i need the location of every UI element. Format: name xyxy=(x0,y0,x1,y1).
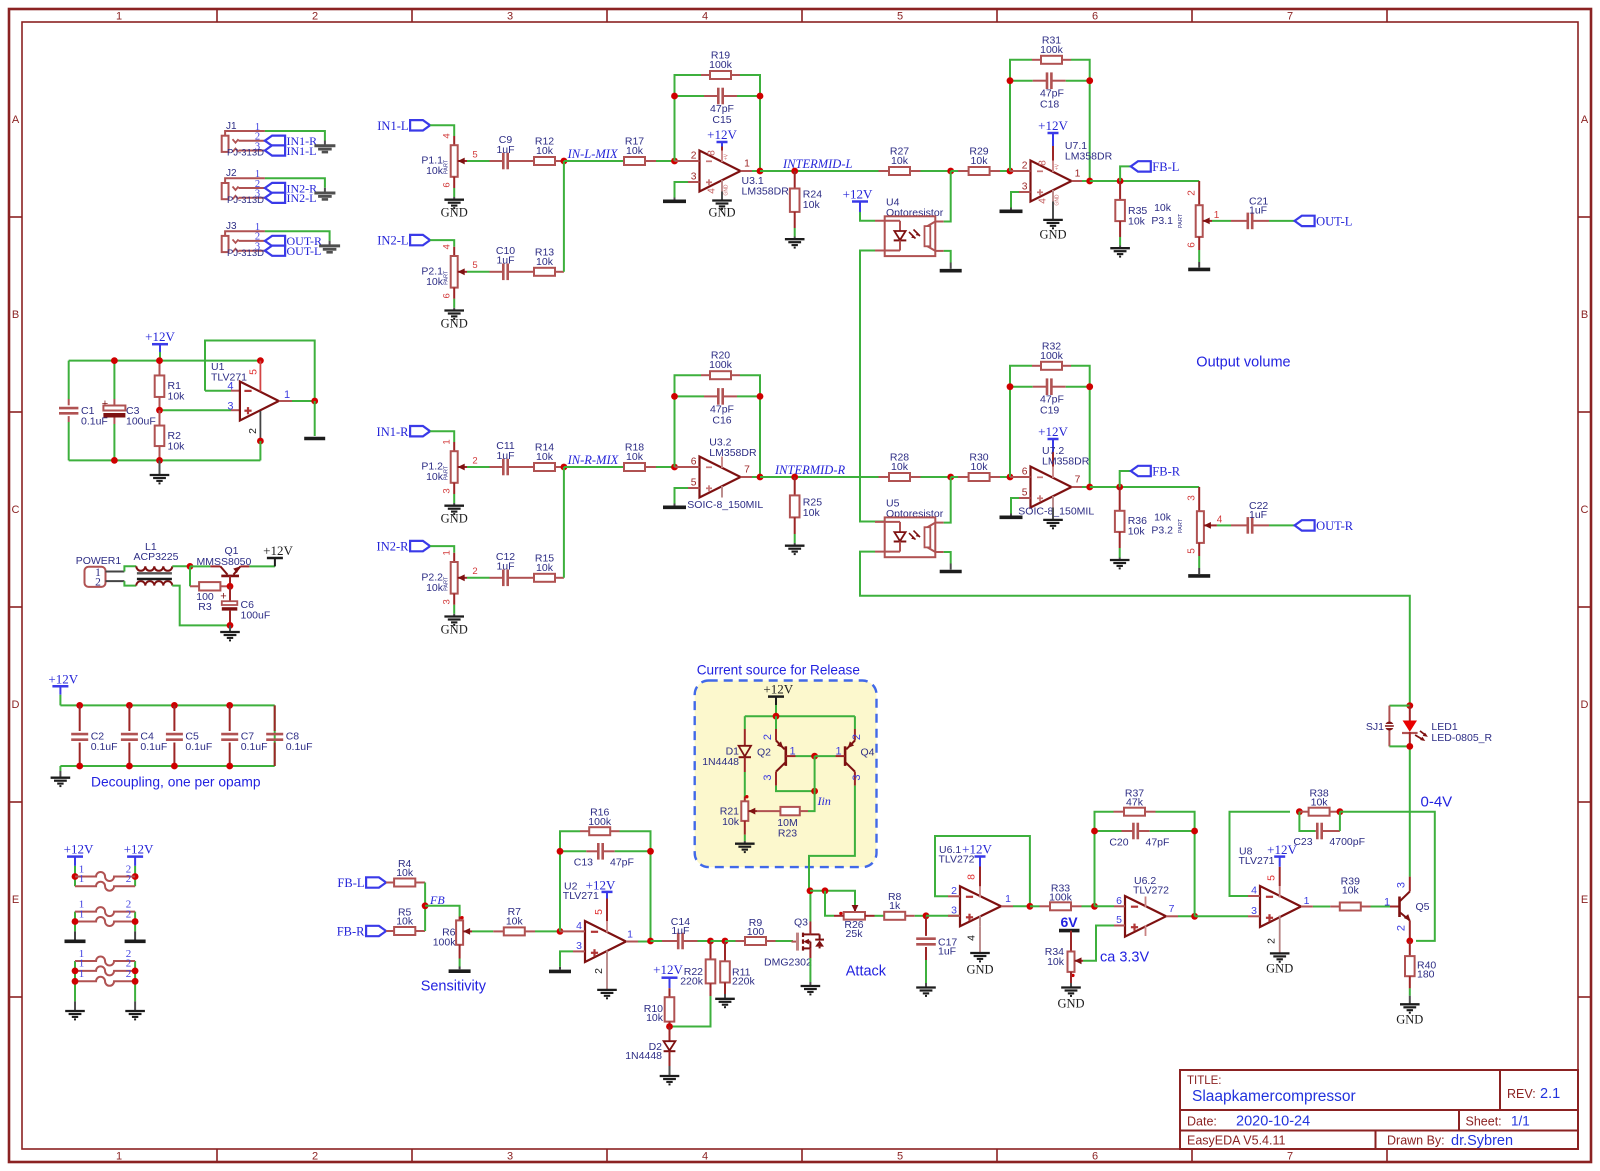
U6.2 output lead xyxy=(1166,903,1178,916)
op-amp U6.2 xyxy=(1125,875,1169,937)
svg-text:0.1uF: 0.1uF xyxy=(140,741,167,753)
wire feedback right rail U7.2 xyxy=(1071,366,1090,487)
junction xyxy=(132,918,139,925)
wire D1 to R21 xyxy=(744,772,746,797)
jumper link 1a xyxy=(75,872,135,881)
op-amp U7.1 xyxy=(1031,140,1113,205)
svg-text:10k: 10k xyxy=(168,391,186,403)
capacitor C16 xyxy=(704,388,737,426)
svg-text:1: 1 xyxy=(744,159,750,170)
jumper link 1b xyxy=(75,882,135,891)
wire jumper2 right stem xyxy=(134,912,136,932)
svg-text:1N4448: 1N4448 xyxy=(702,756,739,768)
svg-text:3: 3 xyxy=(1187,495,1198,501)
wire R18 to U3.2 pin6 xyxy=(656,466,675,468)
wire J3 pin1 to ground xyxy=(265,231,330,241)
junction xyxy=(647,938,654,945)
U7.2 pin5 lead xyxy=(1019,497,1031,499)
svg-text:25k: 25k xyxy=(846,928,864,940)
wire C22 to OUT-R xyxy=(1269,524,1295,526)
junction xyxy=(671,464,678,471)
wire R33 to node xyxy=(1082,905,1095,907)
junction xyxy=(1091,828,1098,835)
svg-text:+12V: +12V xyxy=(145,329,175,344)
svg-text:2: 2 xyxy=(691,151,697,162)
op-amp U7.2 xyxy=(1018,445,1094,517)
potentiometer R26 xyxy=(834,905,875,940)
svg-text:1uF: 1uF xyxy=(671,925,689,937)
junction xyxy=(671,93,678,100)
U2 pin4 lead xyxy=(560,930,585,932)
svg-text:10k: 10k xyxy=(803,507,821,519)
wire node to R29 xyxy=(951,170,958,172)
ground bar (P3.2) xyxy=(1188,574,1210,578)
svg-text:+V: +V xyxy=(724,153,730,160)
svg-text:DMG2302: DMG2302 xyxy=(764,956,812,968)
U8 pin2 stub xyxy=(1265,927,1279,953)
U1 pin4 lead xyxy=(231,390,240,392)
wire R17 to U3.1 pin2 xyxy=(656,160,675,162)
wire decoupling right end xyxy=(274,705,276,766)
svg-text:Output volume: Output volume xyxy=(1196,355,1290,371)
svg-text:1uF: 1uF xyxy=(1249,509,1267,521)
U6.1 output lead xyxy=(1001,893,1013,906)
svg-text:1: 1 xyxy=(1214,210,1220,221)
junction xyxy=(422,902,429,909)
wire output to ground bar xyxy=(314,401,316,436)
op-amp U6.1 xyxy=(939,844,1002,926)
wire J1 pin1 to ground xyxy=(265,131,325,141)
junction xyxy=(132,873,139,880)
svg-text:LM358DR: LM358DR xyxy=(742,186,790,198)
svg-text:3: 3 xyxy=(576,940,582,952)
resistor R17 xyxy=(624,136,656,166)
svg-text:+12V: +12V xyxy=(843,187,873,202)
wire to C14 xyxy=(651,940,663,942)
wire Q3 source to ground xyxy=(809,958,811,982)
ground stem U1 rail xyxy=(159,460,161,474)
junction xyxy=(226,763,233,770)
resistor R31 xyxy=(1032,34,1071,64)
U3.2 pin6 lead xyxy=(675,466,700,468)
wire SJ1 top xyxy=(1389,705,1409,707)
svg-text:3: 3 xyxy=(507,11,513,23)
junction xyxy=(822,887,829,894)
svg-text:Q5: Q5 xyxy=(1416,901,1430,913)
wire R13 to IN-L-MIX xyxy=(563,161,565,272)
wire feedback right rail U7.1 xyxy=(1071,60,1090,181)
svg-text:10k: 10k xyxy=(426,471,444,483)
junction xyxy=(1086,77,1093,84)
U6.2 pin5 lead xyxy=(1114,925,1125,927)
svg-text:2: 2 xyxy=(851,734,863,740)
ground (R36) xyxy=(1110,560,1130,568)
junction xyxy=(76,702,83,709)
ground J2 xyxy=(314,193,335,199)
svg-text:E: E xyxy=(12,894,19,906)
wire U1 pin2 to rail xyxy=(259,441,261,460)
wire C13 right xyxy=(615,850,651,852)
junction xyxy=(126,763,133,770)
svg-text:3: 3 xyxy=(1022,182,1028,193)
svg-text:4: 4 xyxy=(966,935,978,941)
svg-text:8: 8 xyxy=(966,874,978,880)
svg-text:1: 1 xyxy=(627,928,633,940)
ground (decoupling) xyxy=(51,778,71,786)
junction xyxy=(1086,178,1093,185)
wire U2 pin3 to ground bar xyxy=(560,951,573,966)
wire U3.2 pin5 to ground bar xyxy=(675,488,689,504)
svg-text:47pF: 47pF xyxy=(1146,836,1170,848)
svg-text:5: 5 xyxy=(1022,488,1028,499)
U8 pin4 lead xyxy=(1248,895,1260,897)
svg-text:2: 2 xyxy=(126,873,132,885)
svg-text:4: 4 xyxy=(1251,885,1257,897)
resistor R37 xyxy=(1114,788,1156,816)
wire R9 to Q3 gate xyxy=(776,940,794,942)
svg-text:REV:: REV: xyxy=(1507,1087,1536,1101)
wire R1/R2 tap to U1 pin3 xyxy=(160,409,232,411)
ground (U7.1) xyxy=(1043,220,1063,228)
wire +12V to rail xyxy=(159,352,161,361)
svg-text:1k: 1k xyxy=(889,900,901,912)
junction xyxy=(187,563,194,570)
svg-text:Sensitivity: Sensitivity xyxy=(421,979,487,995)
ground (P1.1) xyxy=(444,200,464,208)
wire +12V to U4 xyxy=(860,212,875,221)
svg-text:0.1uF: 0.1uF xyxy=(185,741,212,753)
svg-text:10k: 10k xyxy=(971,461,989,473)
wire R40 to ground xyxy=(1409,988,1411,995)
svg-text:0.1uF: 0.1uF xyxy=(241,741,268,753)
svg-text:10k: 10k xyxy=(426,582,444,594)
potentiometer P3.1 xyxy=(1151,181,1219,250)
svg-text:GND: GND xyxy=(1039,227,1066,241)
ground (U1 rail) xyxy=(150,475,170,483)
ground J3 xyxy=(319,246,340,252)
junction xyxy=(226,702,233,709)
wire jumper1 right xyxy=(134,866,136,886)
junction xyxy=(1191,913,1198,920)
U1 pin3 lead xyxy=(231,409,240,411)
wire Q5 collector to LED1 xyxy=(1409,746,1411,876)
net flag IN2-L xyxy=(265,191,317,205)
svg-text:10k: 10k xyxy=(1311,797,1329,809)
wire U6.1 out xyxy=(1013,905,1030,907)
ground bar (U4) xyxy=(940,269,962,273)
wire current source top rail xyxy=(745,715,855,717)
svg-text:LM358DR: LM358DR xyxy=(1042,456,1090,468)
svg-text:GND: GND xyxy=(441,622,468,636)
svg-text:+12V: +12V xyxy=(962,842,992,857)
svg-text:GND: GND xyxy=(441,512,468,526)
wire U4 top-right to INTERMID-L node xyxy=(944,171,951,222)
jumper link 2b xyxy=(75,917,135,926)
svg-text:3: 3 xyxy=(507,1151,513,1163)
wire node to U6.2 pin6 xyxy=(1095,905,1115,907)
wire P1.2 to ground xyxy=(453,494,455,503)
svg-text:+12V: +12V xyxy=(653,962,683,977)
svg-text:Decoupling, one per opamp: Decoupling, one per opamp xyxy=(91,775,261,790)
wire C20 right xyxy=(1150,830,1195,832)
wire C1 top xyxy=(68,361,70,399)
transistor Q1 xyxy=(197,545,252,586)
svg-text:3: 3 xyxy=(851,774,863,780)
ground (U8) xyxy=(1270,953,1290,961)
capacitor C20 xyxy=(1109,823,1169,849)
junction xyxy=(72,918,79,925)
wire feedback right rail U3.1 xyxy=(740,75,760,171)
svg-text:100k: 100k xyxy=(1049,892,1073,904)
svg-text:10k: 10k xyxy=(396,867,414,879)
svg-text:10k: 10k xyxy=(803,199,821,211)
junction xyxy=(707,938,714,945)
potentiometer P3.2 xyxy=(1151,487,1222,556)
capacitor C12 xyxy=(490,551,522,586)
svg-text:3: 3 xyxy=(762,774,774,780)
svg-text:5: 5 xyxy=(897,1151,903,1163)
svg-text:6: 6 xyxy=(1022,467,1028,478)
svg-text:TLV271: TLV271 xyxy=(1239,855,1275,867)
svg-text:2: 2 xyxy=(126,908,132,920)
highlight box Current source for Release xyxy=(695,681,877,868)
wire J2 pin1 to ground xyxy=(265,178,325,188)
wire U3.1 pin3 to ground bar xyxy=(675,182,689,198)
resistor R10 xyxy=(644,988,675,1026)
svg-text:220k: 220k xyxy=(732,976,756,988)
svg-text:2: 2 xyxy=(472,566,477,577)
wire U3.2 out xyxy=(752,476,760,478)
svg-text:4: 4 xyxy=(1037,198,1048,204)
capacitor C4 xyxy=(121,705,167,766)
potentiometer R6 xyxy=(433,916,472,959)
svg-text:Iin: Iin xyxy=(817,794,831,808)
U2 pin2 stub xyxy=(593,962,607,990)
ground (R11) xyxy=(715,999,735,1007)
svg-text:10k: 10k xyxy=(536,562,554,574)
wire C13 left xyxy=(560,850,586,852)
wire P2.1 to ground xyxy=(453,299,455,308)
svg-text:GND: GND xyxy=(1055,194,1061,206)
junction xyxy=(557,928,564,935)
svg-text:A: A xyxy=(12,114,20,126)
wire C15 left xyxy=(675,95,705,97)
power flag +12V (U6.1) xyxy=(962,842,992,887)
wire Q2 collector to Iin node xyxy=(776,786,815,792)
svg-text:4: 4 xyxy=(706,188,717,194)
svg-text:6V: 6V xyxy=(1060,914,1078,930)
ground (R25) xyxy=(785,546,805,554)
junction xyxy=(923,912,930,919)
svg-text:Slaapkamercompressor: Slaapkamercompressor xyxy=(1192,1088,1356,1105)
U3.1 pin3 lead xyxy=(688,181,700,183)
connector J3 xyxy=(222,221,265,259)
wire R8 to node xyxy=(915,915,926,917)
svg-text:TLV272: TLV272 xyxy=(1133,885,1169,897)
svg-text:180: 180 xyxy=(1417,969,1435,981)
capacitor C9 xyxy=(490,134,522,169)
U6.1 pin3 lead xyxy=(948,915,960,917)
junction xyxy=(1007,168,1014,175)
svg-text:LED-0805_R: LED-0805_R xyxy=(1431,732,1492,744)
wire R30 to U7.2 xyxy=(1000,476,1010,478)
wire U2 out xyxy=(638,941,651,943)
junction xyxy=(1191,828,1198,835)
svg-text:PART: PART xyxy=(444,576,450,591)
wire jumper2 left stem xyxy=(74,912,76,932)
resistor R38 xyxy=(1299,788,1340,816)
resistor R15 xyxy=(522,552,564,582)
ground (R40) xyxy=(1400,1004,1420,1012)
U7.2 pin6 lead xyxy=(1010,476,1031,478)
transistor Q4 xyxy=(835,716,874,785)
junction xyxy=(647,848,654,855)
svg-text:1: 1 xyxy=(442,550,453,555)
wire jumper1 left xyxy=(74,866,76,886)
svg-text:Drawn By:: Drawn By: xyxy=(1387,1134,1445,1148)
svg-text:0.1uF: 0.1uF xyxy=(286,741,313,753)
wire L1 bottom to ground rail xyxy=(172,586,230,626)
wire C15 right xyxy=(737,95,760,97)
resistor R5 xyxy=(386,907,425,936)
ground bar (jumper2 right) xyxy=(125,939,146,943)
svg-text:6: 6 xyxy=(1092,11,1098,23)
wire R35 to ground xyxy=(1119,237,1121,246)
svg-text:C: C xyxy=(12,504,20,516)
wire decoupling bottom rail xyxy=(60,765,274,767)
svg-text:EasyEDA V5.4.11: EasyEDA V5.4.11 xyxy=(1187,1134,1285,1148)
wire INTERMID-L left xyxy=(760,170,889,172)
svg-text:2.1: 2.1 xyxy=(1540,1086,1560,1102)
wire U1 feedback loop xyxy=(205,341,315,402)
wire feedback left rail U2 xyxy=(560,831,580,931)
wire C23 left bracket xyxy=(1299,812,1315,831)
resistor R33 xyxy=(1040,883,1082,911)
svg-text:6: 6 xyxy=(442,182,453,187)
ground stem decoupling xyxy=(59,771,61,778)
resistor R19 xyxy=(701,50,740,80)
svg-text:10k: 10k xyxy=(1128,216,1146,228)
junction xyxy=(257,438,264,445)
junction xyxy=(257,357,264,364)
ground stem jumper2 right xyxy=(134,931,136,939)
svg-text:Sheet:: Sheet: xyxy=(1466,1115,1502,1129)
svg-text:1: 1 xyxy=(1384,896,1390,908)
potentiometer P2.2 xyxy=(421,550,477,605)
op-amp U8 xyxy=(1239,846,1302,927)
ground stem U3.1 xyxy=(721,192,723,201)
svg-text:100k: 100k xyxy=(1040,44,1064,56)
power flag +12V (jumper group 1 left) xyxy=(64,842,94,866)
wire Q4 base to node xyxy=(815,755,836,757)
svg-text:4: 4 xyxy=(442,244,453,249)
svg-text:2: 2 xyxy=(312,1151,318,1163)
connector J1 xyxy=(222,121,265,159)
svg-text:6: 6 xyxy=(1116,895,1122,907)
svg-text:1: 1 xyxy=(442,439,453,444)
svg-text:C19: C19 xyxy=(1040,405,1059,417)
wire R34 wiper to U6.2 pin5 xyxy=(1083,926,1114,961)
wire P3.1 wiper to C21 xyxy=(1212,220,1231,222)
svg-text:7: 7 xyxy=(1075,475,1081,486)
capacitor C8 xyxy=(266,705,312,766)
ground (U7.2) xyxy=(1043,520,1063,528)
optocoupler U4 xyxy=(875,196,944,256)
svg-text:5: 5 xyxy=(1187,548,1198,554)
ground (D2) xyxy=(660,1076,680,1084)
svg-text:10k: 10k xyxy=(536,256,554,268)
solder jumper SJ1 xyxy=(1366,706,1410,747)
wire C3 bottom xyxy=(113,424,115,460)
wire U7.2 out xyxy=(1082,486,1090,488)
svg-text:8: 8 xyxy=(1037,160,1048,166)
svg-text:3: 3 xyxy=(442,599,453,604)
resistor R28 xyxy=(879,452,921,482)
wire top rail U1 xyxy=(69,360,261,362)
wire R22 to R10/D2 node xyxy=(670,996,711,1027)
svg-text:IN1-R: IN1-R xyxy=(377,425,410,439)
junction xyxy=(671,393,678,400)
wire POWER1 pin1 to L1 xyxy=(124,566,136,571)
ground stem jumper2 left xyxy=(74,931,76,939)
ground stem jumper3 left xyxy=(74,1001,76,1010)
wire C14 to node xyxy=(698,940,711,942)
svg-text:+12V: +12V xyxy=(707,127,737,142)
svg-text:10k: 10k xyxy=(722,816,740,828)
junction xyxy=(311,398,318,405)
svg-text:10k: 10k xyxy=(1154,202,1172,214)
svg-text:GND: GND xyxy=(441,206,468,220)
svg-text:PART: PART xyxy=(444,465,450,480)
svg-text:10k: 10k xyxy=(426,276,444,288)
svg-text:1uF: 1uF xyxy=(1249,205,1267,217)
U6.2 pin6 lead xyxy=(1114,905,1125,907)
svg-text:10k: 10k xyxy=(536,145,554,157)
resistor R36 xyxy=(1115,487,1147,548)
svg-text:6: 6 xyxy=(442,293,453,298)
svg-text:IN-L-MIX: IN-L-MIX xyxy=(567,147,619,161)
wire C18 right xyxy=(1066,80,1090,82)
wire feedback right rail U3.2 xyxy=(740,375,760,477)
svg-text:OUT-L: OUT-L xyxy=(287,244,322,258)
wire P3.1 to ground bar xyxy=(1198,250,1200,262)
wire U3.1 out xyxy=(752,170,760,172)
wire feedback right rail U6.2 xyxy=(1156,812,1195,917)
U2 output lead xyxy=(626,928,638,941)
wire U7.1 pin3 to ground bar xyxy=(1011,192,1019,208)
wire IN1-R to P1.2 xyxy=(430,431,454,442)
U8 pin3 lead xyxy=(1248,915,1260,917)
junction xyxy=(1007,474,1014,481)
junction xyxy=(561,158,568,165)
svg-text:P3.1: P3.1 xyxy=(1151,215,1173,227)
ground (R24) xyxy=(785,239,805,247)
wire feedback right rail U2 xyxy=(620,831,651,941)
svg-text:1: 1 xyxy=(116,1151,122,1163)
resistor R18 xyxy=(624,442,656,472)
diode D2 xyxy=(625,1027,675,1067)
svg-text:4: 4 xyxy=(702,11,708,23)
capacitor C6 (electrolytic) xyxy=(220,586,270,625)
svg-text:10k: 10k xyxy=(971,155,989,167)
capacitor C2 xyxy=(71,705,117,766)
optocoupler U5 xyxy=(875,497,944,557)
wire R28 to node xyxy=(921,476,951,478)
svg-text:PJ-313D: PJ-313D xyxy=(227,148,264,159)
op-amp U2 xyxy=(563,881,626,963)
svg-text:Current source for Release: Current source for Release xyxy=(697,663,860,678)
svg-text:PJ-313D: PJ-313D xyxy=(227,248,264,259)
